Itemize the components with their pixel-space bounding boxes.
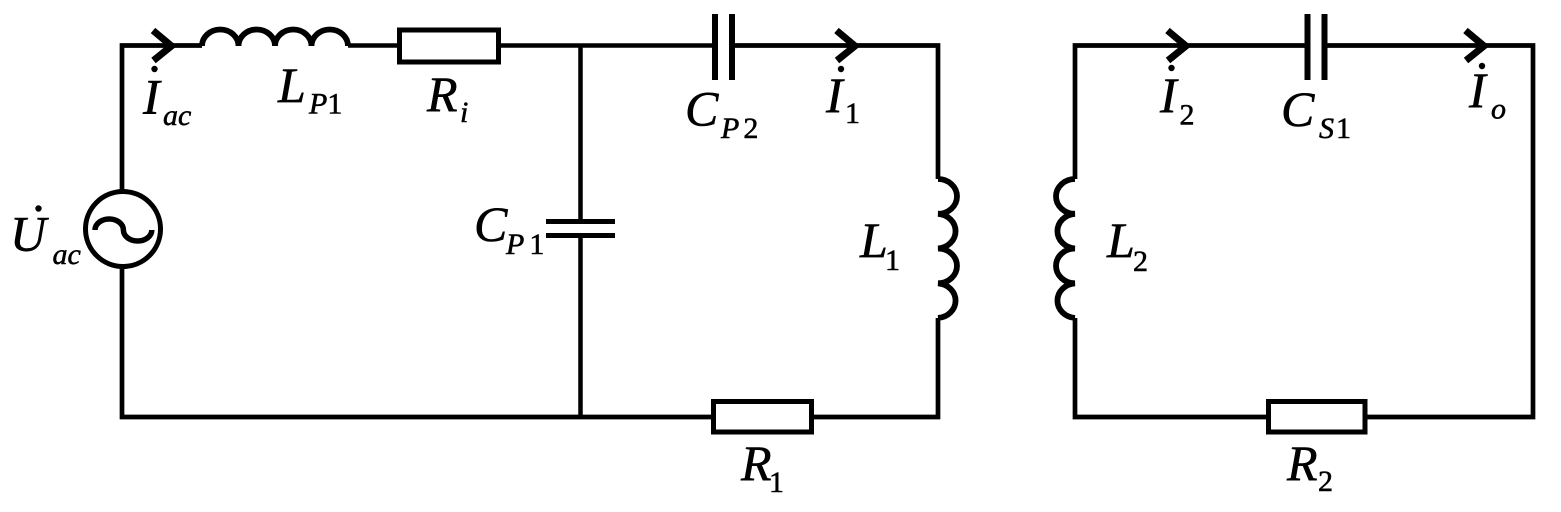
svg-text:2: 2 xyxy=(1318,465,1333,498)
wire node branch lower (C_P1 to bottom) xyxy=(578,238,583,418)
wire L_P1 to R_i xyxy=(348,43,399,48)
source sine symbol xyxy=(95,219,152,241)
svg-text:ac: ac xyxy=(53,238,81,271)
arrow I_ac xyxy=(153,31,172,61)
inductor L_P1 xyxy=(202,30,348,46)
source U_ac circle xyxy=(86,192,161,267)
inductor L_1 xyxy=(938,179,957,318)
svg-text:o: o xyxy=(1491,93,1506,126)
wire loop2 bottom-left corner xyxy=(1075,318,1268,417)
svg-text:R: R xyxy=(426,66,458,122)
loop2 wires xyxy=(1075,46,1533,418)
svg-text:P1: P1 xyxy=(308,88,342,121)
svg-text:i: i xyxy=(460,96,468,129)
svg-text:L: L xyxy=(277,57,306,113)
svg-text:2: 2 xyxy=(1180,99,1195,132)
svg-text:2: 2 xyxy=(1133,245,1148,278)
wire loop2 top-left corner xyxy=(1075,46,1305,180)
wire bottom-left loop1 xyxy=(122,268,713,417)
svg-text:1: 1 xyxy=(845,97,860,130)
svg-text:U: U xyxy=(10,206,49,262)
wire R_i to C_P2 left plate xyxy=(499,43,713,48)
svg-text:C: C xyxy=(1281,81,1315,137)
inductor L_2 xyxy=(1056,179,1075,318)
svg-text:1: 1 xyxy=(885,244,900,277)
svg-text:R: R xyxy=(740,435,772,491)
capacitor C_S1 plates xyxy=(1305,14,1311,80)
resistor R_1 xyxy=(714,402,812,433)
wire L_1 bottom to bottom-right corner to R_1 xyxy=(812,318,938,417)
svg-text:I: I xyxy=(1468,62,1488,118)
svg-text:ac: ac xyxy=(163,99,191,132)
svg-text:I: I xyxy=(1159,67,1179,123)
wire node branch upper (to C_P1) xyxy=(578,46,583,220)
svg-text:C: C xyxy=(474,196,508,252)
svg-text:1: 1 xyxy=(769,466,784,499)
svg-text:R: R xyxy=(1286,435,1318,491)
svg-text:L: L xyxy=(1106,212,1135,268)
svg-text:C: C xyxy=(685,81,719,137)
arrow I_1 xyxy=(837,31,856,61)
resistor R_i xyxy=(400,30,499,62)
svg-text:L: L xyxy=(859,212,888,268)
capacitor C_P1 plates xyxy=(546,219,615,224)
arrow I_2 xyxy=(1168,31,1187,61)
capacitor C_P2 plates xyxy=(712,14,718,80)
wire loop2 top-right + right + bottom-right xyxy=(1327,46,1533,418)
svg-text:P2: P2 xyxy=(720,112,758,145)
svg-text:I: I xyxy=(142,69,162,125)
wire top-left corner loop1 xyxy=(122,46,202,191)
resistor R_2 xyxy=(1269,402,1366,433)
wire C_P2 right plate to top-right corner, down to L_1 xyxy=(735,46,939,180)
svg-text:I: I xyxy=(825,67,845,123)
arrow I_o xyxy=(1466,31,1485,61)
